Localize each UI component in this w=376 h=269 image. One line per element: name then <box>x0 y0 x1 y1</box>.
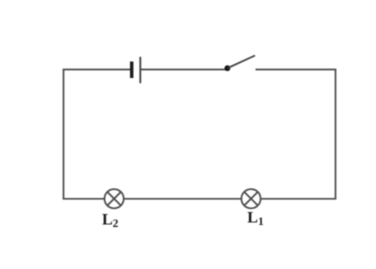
wire lamp L2 to lamp L1 <box>124 198 242 200</box>
lamp L2 circle <box>105 189 124 208</box>
wire lamp L1 to bottom-right corner <box>261 198 337 200</box>
lamp L1 circle <box>241 189 260 208</box>
switch S1 blade (open) <box>227 56 255 69</box>
battery B1 negative plate (short thick) <box>130 62 133 79</box>
svg-text:L2: L2 <box>102 211 119 230</box>
wire switch to top-right corner <box>256 69 337 71</box>
wire bottom-left corner to lamp L2 <box>63 198 105 200</box>
wire right side <box>335 70 337 199</box>
wire battery to switch <box>140 69 227 71</box>
wire left side <box>63 70 65 199</box>
wire top-left to battery <box>63 69 131 71</box>
lamp L2 cross <box>107 192 121 206</box>
svg-text:L1: L1 <box>247 210 264 229</box>
lamp L1 cross <box>244 192 258 206</box>
switch S1 pivot dot <box>225 65 231 71</box>
battery B1 positive plate (long thin) <box>139 57 141 83</box>
